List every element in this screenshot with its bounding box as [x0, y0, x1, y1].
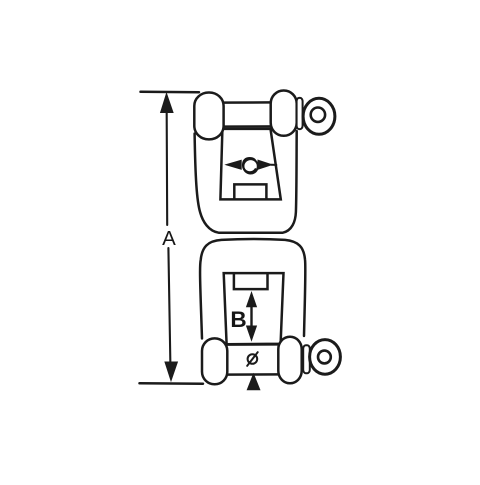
bottom pin upper line: [226, 343, 280, 346]
svg-text:A: A: [162, 227, 176, 250]
top jaw right lobe: [271, 91, 297, 136]
dimension A top extension line: [141, 91, 200, 94]
dimension A line upper segment: [166, 96, 169, 225]
top jaw slot tab: [234, 184, 266, 199]
top jaw left lobe: [194, 93, 223, 140]
dimension C right leader: [271, 164, 276, 166]
svg-text:C: C: [241, 152, 258, 178]
top pin collar: [297, 98, 303, 129]
top pin eye outer: [303, 98, 335, 134]
dimension C left arrowhead: [227, 161, 241, 169]
bottom pin lower line: [225, 373, 281, 376]
bottom pin up arrowhead: [248, 375, 260, 390]
dimension C circle: [243, 159, 257, 173]
dimension B top arrowhead: [247, 294, 256, 307]
svg-text:B: B: [230, 307, 246, 332]
dimension A bottom arrowhead: [165, 362, 177, 381]
bottom pin eye outer: [310, 340, 341, 375]
top pin shank lower line: [219, 125, 284, 128]
top jaw outer body outline: [195, 131, 297, 233]
dimension B bottom arrowhead: [247, 326, 256, 339]
diameter symbol slash: [247, 352, 258, 366]
dimension C right arrowhead: [258, 161, 271, 169]
bottom jaw slot tab: [234, 274, 268, 290]
bottom pin collar: [303, 345, 310, 373]
diameter symbol circle: [248, 354, 258, 364]
bottom jaw left lobe: [202, 338, 227, 384]
bottom body outline: [200, 239, 305, 339]
dimension B line: [250, 303, 252, 330]
top jaw inner slot: [220, 129, 280, 200]
bottom jaw right lobe: [278, 337, 301, 384]
bottom jaw inner slot: [224, 273, 284, 344]
bottom pin eye hole: [318, 351, 331, 364]
top pin shank upper line: [221, 101, 272, 104]
dimension A bottom extension line: [140, 382, 204, 385]
top pin eye hole: [311, 108, 325, 122]
dimension A top arrowhead: [161, 94, 173, 113]
dimension A line lower segment: [168, 248, 170, 377]
